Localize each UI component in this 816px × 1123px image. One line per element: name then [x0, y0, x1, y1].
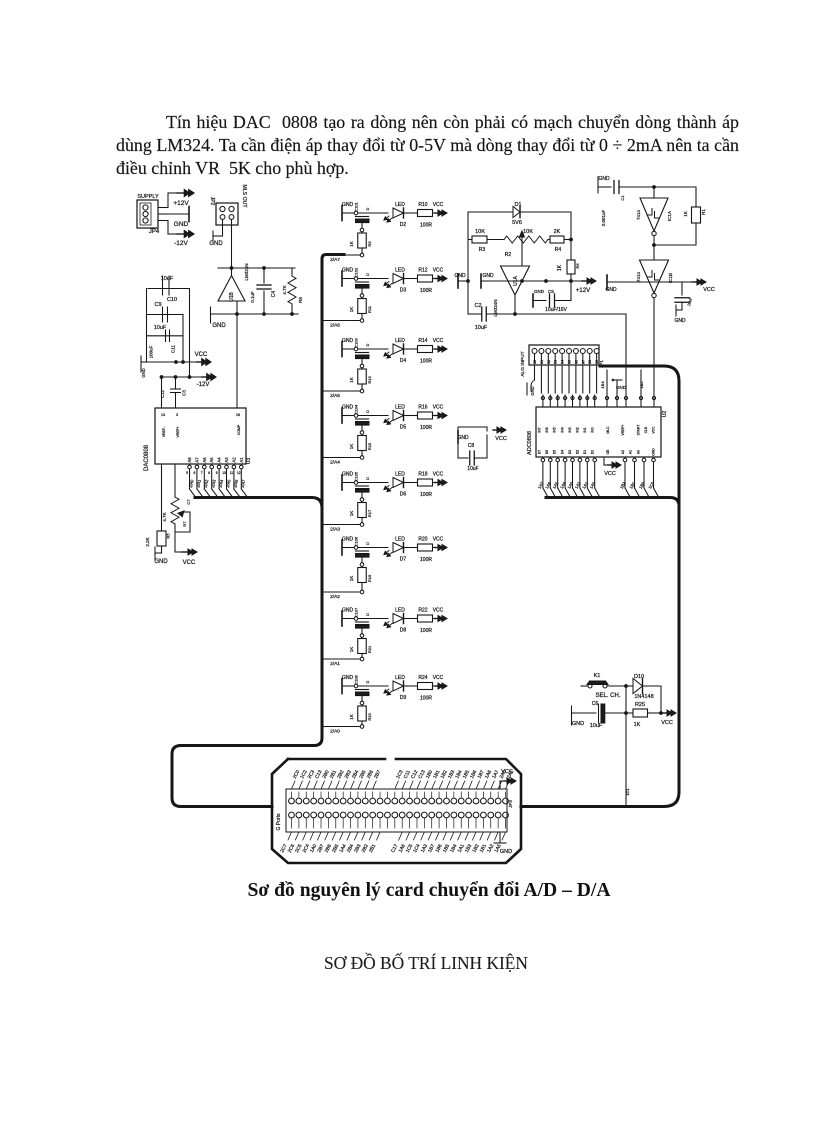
- power flag VCC (D9 row): [433, 675, 448, 689]
- svg-text:1C1: 1C1: [625, 788, 630, 796]
- svg-text:LED: LED: [395, 472, 405, 478]
- power flag VCC (D2 row): [433, 202, 448, 216]
- svg-text:2B1: 2B1: [368, 843, 377, 854]
- svg-text:C6: C6: [592, 701, 599, 707]
- svg-text:100uF: 100uF: [149, 345, 154, 358]
- wire rail B: [189, 289, 191, 378]
- svg-text:100R: 100R: [420, 359, 432, 365]
- ground GND (below DAC): [154, 547, 168, 565]
- svg-text:10: 10: [222, 471, 226, 475]
- power flag +12V (supply): [168, 189, 194, 207]
- resistor R18 100R: [418, 472, 433, 499]
- svg-text:D5: D5: [400, 425, 407, 431]
- capacitor C6 10uF: [572, 686, 627, 729]
- resistor R20 100R: [418, 537, 433, 564]
- svg-text:2B7: 2B7: [373, 769, 382, 780]
- svg-text:D7: D7: [538, 450, 542, 454]
- svg-text:C108: C108: [354, 674, 359, 684]
- bus DAC to border: [186, 498, 322, 509]
- svg-text:VREF+: VREF+: [176, 426, 180, 437]
- svg-text:VCC: VCC: [433, 338, 444, 344]
- svg-text:8: 8: [208, 471, 210, 475]
- resistor R10 100R: [418, 202, 433, 229]
- svg-text:VCC: VCC: [183, 560, 196, 566]
- LED channel row D2: [342, 201, 388, 231]
- svg-text:C1: C1: [620, 195, 625, 201]
- power flag -12V (left): [162, 374, 217, 388]
- resistor R16 100R: [418, 405, 433, 432]
- svg-text:LED: LED: [395, 405, 405, 411]
- svg-text:LED: LED: [395, 338, 405, 344]
- resistor R25 1K: [626, 686, 662, 728]
- power flag VCC (left): [147, 352, 212, 365]
- svg-text:A1: A1: [629, 450, 633, 454]
- connector JP4 SUPPLY: [137, 194, 168, 235]
- LED D9: [384, 675, 417, 701]
- ground GND (supply): [168, 207, 189, 229]
- svg-text:1B0: 1B0: [638, 480, 646, 489]
- svg-text:R15: R15: [367, 442, 372, 450]
- IC U3 DAC0808: [144, 408, 252, 471]
- svg-text:9: 9: [216, 471, 218, 475]
- svg-text:C12: C12: [160, 389, 165, 397]
- svg-text:1K: 1K: [349, 576, 354, 582]
- LED D3: [384, 268, 417, 294]
- svg-text:D1: D1: [514, 202, 521, 208]
- power flag VCC (D8 row): [433, 608, 448, 622]
- LED channel row D6: [342, 471, 388, 501]
- wires JP1 to U2: [541, 365, 596, 393]
- LED channel row D4: [342, 337, 388, 367]
- svg-text:100R: 100R: [420, 696, 432, 702]
- power flag VCC (D5 row): [433, 405, 448, 419]
- svg-text:ADC0808: ADC0808: [527, 431, 533, 455]
- wire feedback box right: [570, 212, 572, 260]
- svg-text:C10: C10: [167, 297, 177, 303]
- svg-text:GND: GND: [342, 472, 354, 478]
- op-amp U1B: [218, 263, 249, 314]
- svg-text:C8: C8: [468, 443, 475, 449]
- svg-text:K1: K1: [594, 673, 601, 679]
- svg-text:1A6: 1A6: [544, 480, 552, 489]
- svg-text:-12V: -12V: [197, 382, 210, 388]
- svg-text:10uF/16V: 10uF/16V: [545, 307, 567, 313]
- svg-text:LED: LED: [395, 537, 405, 543]
- wire U1A bottom rail: [468, 295, 626, 395]
- svg-text:C11: C11: [171, 345, 176, 353]
- capacitor C5 10uF/16V: [533, 281, 571, 313]
- wire net 1B4: [600, 370, 607, 395]
- svg-text:IN7: IN7: [538, 427, 542, 432]
- JP3 top labels: [292, 769, 516, 789]
- svg-text:R11: R11: [367, 305, 372, 313]
- wire channel node 2/A1: [322, 659, 360, 667]
- svg-text:GND: GND: [652, 448, 656, 456]
- svg-text:C103: C103: [354, 337, 359, 347]
- wire IC1B out down to U2: [653, 298, 655, 396]
- svg-text:R18: R18: [418, 472, 427, 478]
- resistor R24 100R: [418, 675, 433, 702]
- svg-text:N1: N1: [540, 360, 544, 364]
- svg-text:100R: 100R: [420, 288, 432, 294]
- power flag VCC (U2): [604, 457, 621, 477]
- svg-text:GND: GND: [342, 338, 354, 344]
- JP3 bottom labels: [279, 832, 505, 854]
- svg-text:MLC: MLC: [606, 426, 610, 434]
- capacitor C2 10uF: [474, 303, 487, 331]
- wire channel node 2/A0: [322, 727, 360, 735]
- zener diode D1 5V6: [468, 202, 571, 226]
- svg-text:1K: 1K: [557, 264, 563, 271]
- wire channel node 2/A7: [322, 255, 360, 263]
- svg-text:10uF: 10uF: [686, 296, 693, 307]
- svg-text:D7: D7: [400, 557, 407, 563]
- svg-text:GND: GND: [534, 289, 545, 294]
- svg-text:IN6: IN6: [545, 427, 549, 432]
- svg-text:C3: C3: [182, 390, 187, 396]
- DAC0808 output bus stubs: [186, 465, 247, 497]
- svg-text:5: 5: [186, 471, 188, 475]
- svg-text:GND: GND: [454, 273, 466, 279]
- inverter IC1B 7414: [636, 260, 673, 298]
- power flag VCC (D6 row): [433, 472, 448, 486]
- svg-text:N2: N2: [547, 360, 551, 364]
- resistor R9 1K: [349, 232, 372, 257]
- trimmer R7 4.7K: [162, 464, 190, 552]
- svg-text:VCC: VCC: [433, 675, 444, 681]
- svg-text:D2: D2: [400, 222, 407, 228]
- svg-text:GND: GND: [342, 202, 354, 208]
- svg-text:R8: R8: [298, 297, 303, 303]
- wire U1B input net: [218, 267, 295, 270]
- resistor R6 1K: [557, 260, 580, 281]
- svg-text:R7: R7: [182, 521, 187, 527]
- power flag -12V (supply): [168, 221, 194, 248]
- svg-text:R19: R19: [367, 574, 372, 582]
- svg-text:VCC: VCC: [433, 405, 444, 411]
- svg-text:1K: 1K: [349, 307, 354, 313]
- svg-text:ALG INPUT: ALG INPUT: [520, 351, 526, 376]
- connector JP1 ALG INPUT: [520, 345, 604, 377]
- svg-text:VCC: VCC: [661, 720, 673, 726]
- wire net 1B5: [639, 370, 644, 395]
- svg-text:C7: C7: [186, 499, 191, 505]
- power flag VCC (JP3): [500, 769, 516, 789]
- svg-text:R2: R2: [505, 252, 512, 258]
- svg-text:U2: U2: [662, 411, 668, 418]
- svg-text:2/A0: 2/A0: [188, 478, 195, 488]
- svg-text:2/A3: 2/A3: [210, 478, 217, 488]
- svg-text:1A3: 1A3: [566, 480, 574, 489]
- U2 top pin stubs: [541, 395, 655, 407]
- svg-text:2/A7: 2/A7: [330, 257, 340, 263]
- power flag VCC (D7 row): [433, 537, 448, 551]
- svg-text:GND: GND: [154, 559, 168, 565]
- svg-text:D: D: [366, 343, 370, 346]
- svg-text:VCC: VCC: [495, 436, 507, 442]
- ground GND (JP3): [494, 832, 512, 855]
- svg-text:C101: C101: [354, 201, 359, 211]
- ground GND (C1): [598, 176, 611, 193]
- svg-text:A6: A6: [202, 457, 207, 463]
- capacitor C1 0.001uF: [601, 181, 696, 227]
- svg-text:+12V: +12V: [173, 200, 189, 207]
- svg-text:2/A6: 2/A6: [330, 323, 340, 329]
- svg-text:GND: GND: [616, 385, 627, 390]
- ground GND (JP2): [209, 225, 223, 247]
- svg-text:GND: GND: [674, 318, 686, 324]
- svg-text:VCC: VCC: [703, 287, 715, 293]
- svg-text:GND: GND: [605, 287, 617, 293]
- svg-text:7: 7: [201, 471, 203, 475]
- svg-text:CLK: CLK: [644, 426, 648, 433]
- svg-text:LED: LED: [395, 202, 405, 208]
- svg-text:START: START: [636, 425, 640, 436]
- svg-text:100R: 100R: [420, 425, 432, 431]
- svg-text:A2: A2: [231, 457, 236, 463]
- connector JP3 G Ports: [272, 759, 521, 863]
- svg-text:GND: GND: [212, 323, 226, 329]
- svg-text:C9: C9: [154, 302, 161, 308]
- svg-text:2/A4: 2/A4: [218, 478, 225, 488]
- svg-text:2/A6: 2/A6: [232, 478, 239, 488]
- svg-text:VCC: VCC: [433, 202, 444, 208]
- svg-text:D: D: [366, 680, 370, 683]
- svg-text:16: 16: [236, 413, 240, 417]
- svg-text:R23: R23: [367, 713, 372, 721]
- svg-text:D: D: [366, 613, 370, 616]
- svg-text:+12V: +12V: [576, 288, 590, 294]
- JP3 pin circles: [289, 792, 509, 828]
- svg-text:C4: C4: [271, 291, 277, 298]
- svg-text:LM324N: LM324N: [244, 263, 249, 280]
- svg-text:1K: 1K: [683, 211, 688, 217]
- svg-text:D5: D5: [553, 450, 557, 454]
- resistor R23 1K: [349, 705, 372, 728]
- svg-text:D10: D10: [634, 674, 644, 680]
- svg-text:A4: A4: [217, 457, 222, 463]
- svg-text:R9: R9: [367, 241, 372, 247]
- svg-text:D3: D3: [568, 450, 572, 454]
- svg-text:VCC: VCC: [433, 472, 444, 478]
- svg-text:R16: R16: [418, 405, 427, 411]
- wire VCC rail (IC1B): [607, 279, 715, 293]
- svg-text:11: 11: [230, 471, 234, 475]
- ground GND (JP1): [527, 365, 535, 396]
- svg-text:5V6: 5V6: [512, 220, 522, 226]
- svg-text:GND: GND: [342, 608, 354, 614]
- svg-text:IN5: IN5: [553, 427, 557, 432]
- svg-text:1A1: 1A1: [581, 480, 589, 489]
- svg-text:10K: 10K: [475, 229, 485, 235]
- resistor R15 1K: [349, 435, 372, 460]
- svg-text:A3: A3: [224, 457, 229, 463]
- svg-text:2K: 2K: [554, 229, 561, 235]
- svg-text:U1B: U1B: [229, 291, 235, 301]
- resistor R11 1K: [349, 298, 372, 323]
- svg-text:100R: 100R: [420, 628, 432, 634]
- svg-text:D8: D8: [400, 628, 407, 634]
- svg-text:U3: U3: [246, 458, 252, 465]
- svg-text:1N4148: 1N4148: [634, 694, 653, 700]
- power flag VCC (K1): [661, 710, 676, 726]
- resistor R5 2.2K: [145, 464, 171, 553]
- svg-text:1K: 1K: [349, 377, 354, 383]
- resistor R4 2K: [548, 229, 572, 253]
- wire rail A: [182, 315, 184, 363]
- svg-text:IN1: IN1: [583, 427, 587, 432]
- resistor R3 10K: [468, 229, 504, 253]
- svg-text:GND: GND: [141, 368, 146, 377]
- wire IC1A out to IC1B: [653, 236, 696, 261]
- svg-text:2/A2: 2/A2: [203, 478, 210, 488]
- LED D8: [384, 608, 417, 634]
- svg-text:C107: C107: [354, 607, 359, 617]
- svg-text:12: 12: [237, 471, 241, 475]
- svg-text:COMP: COMP: [237, 424, 241, 435]
- svg-text:10uF: 10uF: [475, 325, 488, 331]
- svg-text:IN0: IN0: [591, 427, 595, 432]
- resistor R19 1K: [349, 567, 372, 594]
- ground GND (U1B): [211, 307, 299, 329]
- op-amp U1A: [493, 266, 530, 317]
- svg-text:MLS OUT: MLS OUT: [241, 184, 247, 208]
- svg-text:D: D: [366, 207, 370, 210]
- svg-text:IN4: IN4: [560, 427, 564, 432]
- svg-text:VCC: VCC: [604, 471, 616, 477]
- svg-text:D1: D1: [583, 450, 587, 454]
- svg-text:VCC: VCC: [433, 268, 444, 274]
- svg-text:1B2: 1B2: [619, 480, 627, 489]
- svg-text:GND: GND: [482, 273, 494, 279]
- svg-text:GND: GND: [342, 268, 354, 274]
- U2 bottom data stubs: [537, 458, 659, 497]
- svg-text:D: D: [366, 542, 370, 545]
- svg-text:4.7K: 4.7K: [282, 285, 287, 294]
- svg-text:R20: R20: [418, 537, 427, 543]
- svg-text:10uF: 10uF: [467, 466, 478, 472]
- svg-text:R17: R17: [367, 509, 372, 517]
- wire U1B output to DAC: [236, 313, 294, 408]
- svg-text:0.1uF: 0.1uF: [250, 291, 255, 303]
- svg-text:13: 13: [161, 413, 165, 417]
- svg-text:VREF-: VREF-: [162, 427, 166, 437]
- svg-text:2/A4: 2/A4: [330, 460, 340, 466]
- svg-text:1K: 1K: [349, 444, 354, 450]
- svg-text:1A0: 1A0: [588, 480, 596, 489]
- svg-text:GND: GND: [209, 241, 223, 247]
- wire channel node 2/A3: [322, 525, 360, 533]
- svg-text:1A5: 1A5: [551, 480, 559, 489]
- LED channel row D9: [342, 674, 388, 704]
- resistor R12 100R: [418, 268, 433, 295]
- wire top rail (left caps): [148, 288, 190, 290]
- svg-text:1B1: 1B1: [628, 480, 636, 489]
- svg-text:C102: C102: [354, 267, 359, 277]
- LED channel row D7: [342, 536, 388, 566]
- svg-text:C2: C2: [474, 303, 481, 309]
- svg-text:R10: R10: [418, 202, 427, 208]
- svg-text:GND: GND: [572, 721, 584, 727]
- capacitor C7 10uF (vcc): [675, 282, 693, 310]
- capacitor C8 10uF (VCC filter): [457, 427, 506, 472]
- svg-text:LED: LED: [395, 608, 405, 614]
- resistor R17 1K: [349, 502, 372, 527]
- svg-text:D: D: [366, 273, 370, 276]
- svg-text:N4: N4: [561, 360, 565, 364]
- svg-text:2/A1: 2/A1: [330, 661, 340, 667]
- svg-text:1K: 1K: [349, 647, 354, 653]
- svg-text:10uF: 10uF: [154, 325, 167, 331]
- wire feedback box left: [467, 212, 469, 314]
- svg-text:D2: D2: [576, 450, 580, 454]
- svg-text:2/A5: 2/A5: [225, 478, 232, 488]
- svg-text:C105: C105: [354, 471, 359, 481]
- wire channel node 2/A2: [322, 592, 360, 600]
- svg-text:JP4: JP4: [149, 229, 160, 235]
- svg-text:R6: R6: [575, 263, 580, 269]
- svg-text:D: D: [366, 410, 370, 413]
- svg-text:2/A7: 2/A7: [240, 478, 247, 488]
- connector JP2 MLS OUT: [209, 184, 247, 225]
- svg-text:2/A0: 2/A0: [330, 729, 340, 735]
- potentiometer R2 10K: [504, 229, 548, 266]
- wire net 1C1: [625, 713, 630, 806]
- capacitor C4 0.1uF: [250, 268, 277, 314]
- LED D6: [384, 472, 417, 498]
- svg-text:2.2K: 2.2K: [145, 537, 150, 546]
- svg-text:D9: D9: [400, 695, 407, 701]
- svg-text:LED: LED: [395, 268, 405, 274]
- svg-text:A2: A2: [621, 450, 625, 454]
- svg-text:R12: R12: [418, 268, 427, 274]
- svg-text:GND: GND: [342, 675, 354, 681]
- resistor R13 1K: [349, 368, 372, 393]
- ground GND (U1A in): [481, 273, 500, 288]
- svg-text:7414: 7414: [636, 209, 641, 220]
- svg-text:10K: 10K: [523, 229, 533, 235]
- svg-text:R5: R5: [166, 533, 171, 539]
- svg-text:R1: R1: [701, 209, 706, 215]
- svg-text:VCC: VCC: [652, 426, 656, 434]
- svg-text:D4: D4: [560, 450, 564, 454]
- LED D4: [384, 338, 417, 364]
- svg-text:1A2: 1A2: [574, 480, 582, 489]
- svg-text:R14: R14: [418, 338, 427, 344]
- svg-text:0.001uF: 0.001uF: [601, 209, 606, 226]
- svg-text:A5: A5: [209, 457, 214, 463]
- svg-text:N7: N7: [581, 360, 585, 364]
- svg-text:LED: LED: [395, 675, 405, 681]
- power flag VCC (D3 row): [433, 268, 448, 282]
- resistor R8 4.7K: [282, 268, 303, 314]
- IC U2 ADC0808: [527, 407, 668, 457]
- svg-text:1A4: 1A4: [559, 480, 567, 489]
- svg-text:GND: GND: [174, 221, 189, 228]
- inverter IC1A 7414: [636, 187, 672, 236]
- diode D10 1N4148: [626, 674, 661, 700]
- svg-text:D3: D3: [400, 288, 407, 294]
- svg-text:2/A2: 2/A2: [330, 594, 340, 600]
- switch K1 SEL.CH.: [581, 673, 627, 699]
- svg-text:R4: R4: [555, 247, 562, 253]
- svg-text:N0: N0: [533, 360, 537, 364]
- svg-text:A7: A7: [194, 457, 199, 463]
- svg-text:R24: R24: [418, 675, 427, 681]
- svg-text:GND: GND: [457, 435, 469, 441]
- ground GND (U1A left): [454, 273, 468, 288]
- svg-text:JP1: JP1: [599, 360, 604, 368]
